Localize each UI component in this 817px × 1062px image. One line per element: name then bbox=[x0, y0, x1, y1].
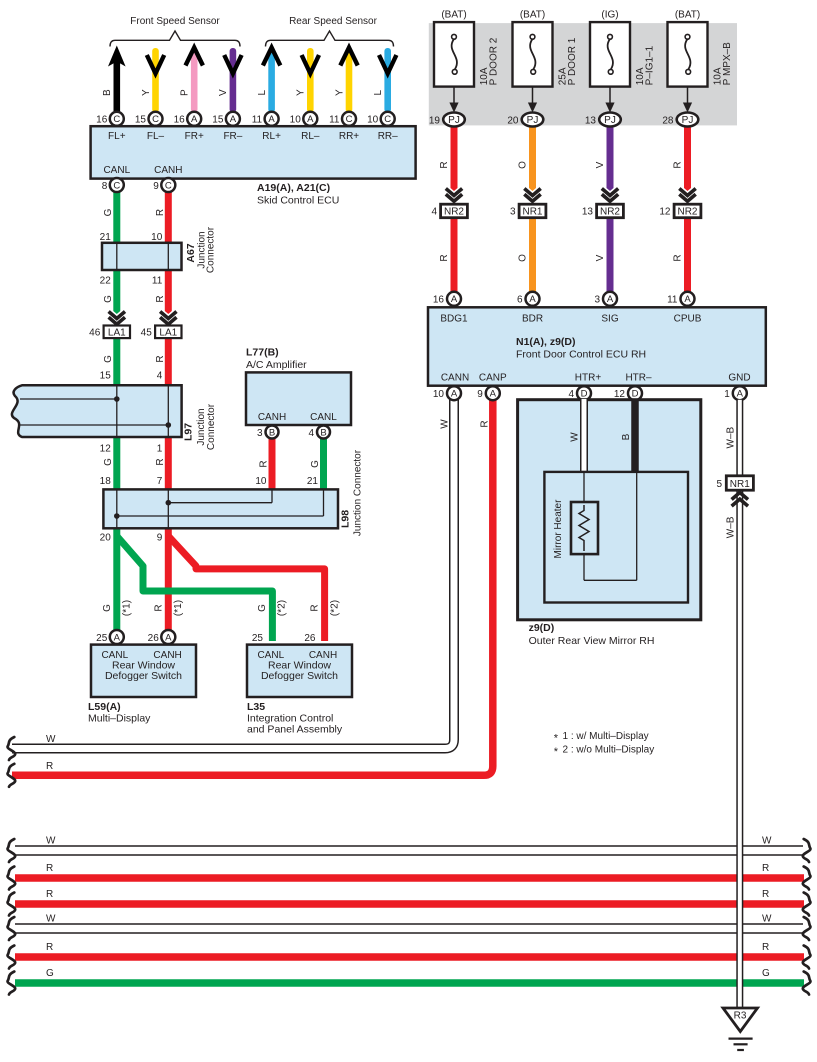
svg-text:C: C bbox=[152, 114, 159, 125]
svg-text:P DOOR 1: P DOOR 1 bbox=[567, 37, 578, 85]
svg-text:Rear Speed Sensor: Rear Speed Sensor bbox=[289, 16, 378, 27]
svg-text:P: P bbox=[180, 89, 191, 96]
svg-text:R: R bbox=[673, 254, 684, 261]
svg-text:P DOOR 2: P DOOR 2 bbox=[489, 37, 500, 85]
svg-text:RR+: RR+ bbox=[339, 131, 359, 142]
svg-text:A/C Amplifier: A/C Amplifier bbox=[246, 359, 307, 371]
svg-text:1: 1 bbox=[724, 389, 730, 400]
svg-text:RL+: RL+ bbox=[262, 131, 281, 142]
svg-text:Connector: Connector bbox=[206, 403, 217, 450]
svg-text:L97: L97 bbox=[183, 423, 195, 441]
svg-text:15: 15 bbox=[100, 371, 112, 382]
svg-text:O: O bbox=[518, 161, 529, 169]
svg-text:Y: Y bbox=[296, 89, 307, 96]
svg-text:1 : w/ Multi–Display: 1 : w/ Multi–Display bbox=[563, 731, 649, 742]
svg-text:PJ: PJ bbox=[448, 115, 460, 126]
svg-text:A: A bbox=[451, 389, 458, 400]
svg-text:C: C bbox=[113, 114, 120, 125]
svg-text:9: 9 bbox=[153, 181, 159, 192]
svg-text:Front Door Control ECU RH: Front Door Control ECU RH bbox=[516, 349, 646, 361]
svg-text:(BAT): (BAT) bbox=[520, 10, 545, 21]
svg-text:C: C bbox=[165, 180, 172, 191]
svg-text:A67: A67 bbox=[185, 243, 197, 262]
svg-text:18: 18 bbox=[100, 476, 112, 487]
svg-text:B: B bbox=[269, 427, 275, 438]
svg-text:(*2): (*2) bbox=[330, 600, 341, 616]
svg-text:1: 1 bbox=[157, 444, 163, 455]
svg-text:10: 10 bbox=[433, 389, 445, 400]
svg-text:12: 12 bbox=[100, 444, 112, 455]
svg-text:R: R bbox=[439, 161, 450, 168]
svg-text:R: R bbox=[439, 254, 450, 261]
svg-text:A: A bbox=[191, 114, 198, 125]
svg-text:R: R bbox=[155, 355, 166, 362]
svg-text:10: 10 bbox=[367, 115, 379, 126]
svg-text:9: 9 bbox=[157, 533, 163, 544]
svg-text:16: 16 bbox=[174, 115, 186, 126]
svg-text:46: 46 bbox=[89, 328, 101, 339]
svg-text:*: * bbox=[554, 732, 559, 744]
svg-text:NR1: NR1 bbox=[522, 206, 542, 217]
svg-text:8: 8 bbox=[102, 181, 108, 192]
svg-text:R: R bbox=[480, 420, 491, 427]
svg-text:Skid Control ECU: Skid Control ECU bbox=[257, 195, 339, 207]
svg-text:LA1: LA1 bbox=[159, 327, 177, 338]
svg-text:BDG1: BDG1 bbox=[440, 314, 468, 325]
svg-text:(*1): (*1) bbox=[122, 600, 133, 616]
svg-text:C: C bbox=[384, 114, 391, 125]
svg-text:26: 26 bbox=[148, 633, 160, 644]
svg-text:45: 45 bbox=[141, 328, 153, 339]
svg-text:R: R bbox=[310, 604, 321, 611]
svg-text:(*2): (*2) bbox=[277, 600, 288, 616]
svg-text:11: 11 bbox=[329, 115, 340, 126]
svg-text:15: 15 bbox=[212, 115, 224, 126]
svg-text:R: R bbox=[762, 942, 769, 953]
svg-text:A: A bbox=[307, 114, 314, 125]
svg-text:28: 28 bbox=[662, 115, 674, 126]
svg-text:3: 3 bbox=[594, 294, 600, 305]
svg-text:and Panel Assembly: and Panel Assembly bbox=[247, 724, 343, 736]
svg-text:10: 10 bbox=[255, 476, 267, 487]
svg-text:(BAT): (BAT) bbox=[441, 10, 466, 21]
svg-text:4: 4 bbox=[157, 371, 163, 382]
svg-text:*: * bbox=[554, 746, 559, 758]
svg-text:10: 10 bbox=[290, 115, 302, 126]
svg-text:11: 11 bbox=[667, 294, 678, 305]
svg-text:GND: GND bbox=[728, 372, 750, 383]
svg-text:FL+: FL+ bbox=[108, 131, 126, 142]
svg-text:R: R bbox=[155, 295, 166, 302]
svg-text:W: W bbox=[440, 419, 451, 429]
svg-text:G: G bbox=[310, 460, 321, 468]
svg-text:V: V bbox=[218, 89, 229, 96]
svg-text:25: 25 bbox=[252, 633, 264, 644]
svg-text:SIG: SIG bbox=[601, 314, 618, 325]
svg-text:CANL: CANL bbox=[103, 165, 130, 176]
svg-text:L: L bbox=[373, 89, 384, 95]
svg-text:A: A bbox=[165, 632, 172, 643]
svg-text:A: A bbox=[684, 294, 691, 305]
svg-text:R: R bbox=[673, 161, 684, 168]
svg-text:W–B: W–B bbox=[726, 426, 737, 448]
svg-text:26: 26 bbox=[304, 633, 316, 644]
svg-text:W: W bbox=[46, 914, 56, 925]
svg-text:L59(A): L59(A) bbox=[88, 701, 121, 713]
svg-text:20: 20 bbox=[100, 533, 112, 544]
svg-text:R: R bbox=[762, 889, 769, 900]
svg-text:C: C bbox=[346, 114, 353, 125]
svg-text:Defogger Switch: Defogger Switch bbox=[105, 670, 182, 682]
svg-text:CANH: CANH bbox=[258, 412, 286, 423]
svg-text:A19(A), A21(C): A19(A), A21(C) bbox=[257, 182, 330, 194]
svg-text:R: R bbox=[155, 458, 166, 465]
svg-text:L98: L98 bbox=[340, 510, 352, 528]
svg-text:Y: Y bbox=[334, 89, 345, 96]
svg-text:N1(A), z9(D): N1(A), z9(D) bbox=[516, 336, 576, 348]
svg-text:BDR: BDR bbox=[522, 314, 543, 325]
svg-text:L35: L35 bbox=[247, 701, 265, 713]
svg-text:A: A bbox=[529, 294, 536, 305]
svg-text:R3: R3 bbox=[734, 1011, 747, 1022]
svg-text:4: 4 bbox=[431, 207, 437, 218]
svg-text:Front Speed Sensor: Front Speed Sensor bbox=[130, 16, 220, 27]
svg-text:W: W bbox=[762, 914, 772, 925]
svg-text:7: 7 bbox=[157, 476, 163, 487]
svg-text:HTR+: HTR+ bbox=[575, 372, 602, 383]
svg-text:NR2: NR2 bbox=[444, 206, 464, 217]
svg-text:FL–: FL– bbox=[147, 131, 165, 142]
svg-text:25: 25 bbox=[96, 633, 108, 644]
svg-text:L77(B): L77(B) bbox=[246, 347, 279, 359]
svg-text:11: 11 bbox=[252, 115, 263, 126]
svg-text:Junction Connector: Junction Connector bbox=[353, 449, 364, 536]
svg-text:21: 21 bbox=[100, 232, 112, 243]
svg-text:16: 16 bbox=[96, 115, 108, 126]
svg-text:10: 10 bbox=[151, 232, 163, 243]
svg-text:Y: Y bbox=[141, 89, 152, 96]
svg-text:G: G bbox=[103, 295, 114, 303]
svg-text:W–B: W–B bbox=[726, 516, 737, 538]
svg-text:W: W bbox=[46, 734, 56, 745]
svg-text:NR1: NR1 bbox=[730, 479, 750, 490]
svg-text:11: 11 bbox=[152, 276, 163, 287]
svg-text:W: W bbox=[762, 836, 772, 847]
svg-text:O: O bbox=[518, 254, 529, 262]
svg-text:(IG): (IG) bbox=[601, 10, 618, 21]
svg-text:Multi–Display: Multi–Display bbox=[88, 713, 151, 725]
svg-text:2 : w/o Multi–Display: 2 : w/o Multi–Display bbox=[563, 744, 655, 755]
svg-text:(*1): (*1) bbox=[173, 600, 184, 616]
svg-text:A: A bbox=[268, 114, 275, 125]
svg-text:(BAT): (BAT) bbox=[675, 10, 700, 21]
svg-text:21: 21 bbox=[307, 476, 319, 487]
svg-text:6: 6 bbox=[517, 294, 523, 305]
svg-text:z9(D): z9(D) bbox=[529, 622, 555, 634]
svg-text:HTR–: HTR– bbox=[625, 372, 652, 383]
svg-text:R: R bbox=[46, 889, 53, 900]
svg-text:A: A bbox=[607, 294, 614, 305]
svg-text:A: A bbox=[451, 294, 458, 305]
svg-text:B: B bbox=[320, 427, 326, 438]
svg-text:NR2: NR2 bbox=[677, 206, 697, 217]
svg-text:V: V bbox=[595, 161, 606, 168]
svg-text:R: R bbox=[46, 863, 53, 874]
svg-text:G: G bbox=[762, 968, 770, 979]
svg-text:D: D bbox=[632, 389, 639, 400]
svg-text:CPUB: CPUB bbox=[674, 314, 702, 325]
svg-text:9: 9 bbox=[477, 389, 483, 400]
svg-text:R: R bbox=[259, 460, 270, 467]
svg-text:12: 12 bbox=[659, 207, 671, 218]
svg-text:PJ: PJ bbox=[682, 115, 694, 126]
svg-text:G: G bbox=[103, 355, 114, 363]
svg-text:16: 16 bbox=[433, 294, 445, 305]
svg-text:5: 5 bbox=[716, 479, 722, 490]
svg-text:CANP: CANP bbox=[479, 372, 507, 383]
svg-text:LA1: LA1 bbox=[108, 327, 126, 338]
svg-text:3: 3 bbox=[257, 428, 263, 439]
svg-text:20: 20 bbox=[507, 115, 519, 126]
svg-text:PJ: PJ bbox=[604, 115, 616, 126]
svg-text:CANN: CANN bbox=[441, 372, 469, 383]
svg-text:G: G bbox=[103, 458, 114, 466]
svg-text:Outer Rear View Mirror RH: Outer Rear View Mirror RH bbox=[529, 635, 655, 647]
svg-text:A: A bbox=[114, 632, 121, 643]
svg-text:D: D bbox=[581, 389, 588, 400]
svg-text:L: L bbox=[257, 89, 268, 95]
svg-text:RL–: RL– bbox=[301, 131, 320, 142]
svg-text:FR–: FR– bbox=[223, 131, 242, 142]
svg-text:A: A bbox=[230, 114, 237, 125]
svg-text:4: 4 bbox=[308, 428, 314, 439]
svg-text:G: G bbox=[103, 208, 114, 216]
svg-text:A: A bbox=[490, 389, 497, 400]
svg-text:NR2: NR2 bbox=[600, 206, 620, 217]
svg-text:3: 3 bbox=[510, 207, 516, 218]
svg-text:R: R bbox=[46, 761, 53, 772]
svg-text:19: 19 bbox=[429, 115, 441, 126]
svg-text:R: R bbox=[762, 863, 769, 874]
svg-text:W: W bbox=[570, 432, 581, 442]
svg-text:Defogger Switch: Defogger Switch bbox=[261, 670, 338, 682]
svg-text:FR+: FR+ bbox=[185, 131, 204, 142]
svg-text:W: W bbox=[46, 836, 56, 847]
svg-text:CANL: CANL bbox=[310, 412, 337, 423]
svg-text:CANH: CANH bbox=[154, 165, 182, 176]
svg-text:PJ: PJ bbox=[527, 115, 539, 126]
svg-text:A: A bbox=[737, 389, 744, 400]
svg-text:P MPX–B: P MPX–B bbox=[722, 42, 733, 85]
svg-text:G: G bbox=[46, 968, 54, 979]
svg-text:B: B bbox=[621, 433, 632, 440]
svg-text:R: R bbox=[46, 942, 53, 953]
svg-text:Connector: Connector bbox=[206, 226, 217, 273]
svg-text:C: C bbox=[113, 180, 120, 191]
svg-text:P–IG1–1: P–IG1–1 bbox=[645, 45, 656, 85]
svg-text:RR–: RR– bbox=[378, 131, 398, 142]
svg-text:22: 22 bbox=[100, 276, 112, 287]
svg-text:Mirror Heater: Mirror Heater bbox=[553, 499, 564, 559]
svg-text:13: 13 bbox=[585, 115, 597, 126]
svg-text:G: G bbox=[102, 604, 113, 612]
svg-text:15: 15 bbox=[135, 115, 147, 126]
svg-text:R: R bbox=[154, 604, 165, 611]
svg-text:G: G bbox=[257, 604, 268, 612]
svg-text:13: 13 bbox=[582, 207, 594, 218]
svg-text:V: V bbox=[595, 254, 606, 261]
svg-text:R: R bbox=[155, 209, 166, 216]
svg-text:B: B bbox=[102, 89, 113, 96]
